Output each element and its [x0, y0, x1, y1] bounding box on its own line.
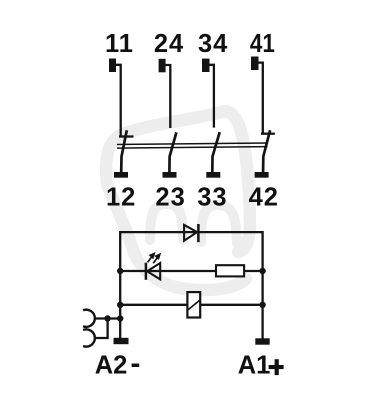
wire coil row — [120, 304, 262, 306]
svg-text:23: 23 — [155, 184, 185, 212]
wire pole4 top — [258, 63, 263, 134]
terminal square 34 — [202, 59, 210, 72]
wire pole3 top — [209, 65, 214, 128]
terminal square 11 — [109, 59, 116, 73]
mechanical linkage line lower — [117, 147, 268, 149]
svg-text:33: 33 — [197, 184, 227, 212]
resistor R1 — [216, 265, 244, 276]
terminal bar 33 — [206, 172, 220, 178]
svg-text:12: 12 — [106, 184, 136, 212]
terminal square 41 — [251, 57, 259, 71]
terminal square 24 — [159, 59, 166, 73]
terminal bar 42 — [255, 172, 269, 178]
NC tick pole4 — [261, 133, 275, 135]
mechanical linkage line upper — [117, 143, 268, 145]
svg-text:41: 41 — [250, 30, 275, 58]
wire right vertical lower — [261, 271, 263, 339]
blade pole4 — [263, 130, 270, 172]
terminal bar A1 — [255, 338, 269, 344]
junction dot resistor row right — [259, 268, 265, 274]
svg-text:A1: A1 — [238, 351, 271, 379]
wire bridge lower row — [94, 319, 107, 339]
blade pole1 — [121, 130, 127, 172]
wire left vertical lower — [119, 271, 121, 339]
diode D1 — [184, 224, 198, 242]
terminal bar 23 — [163, 172, 177, 178]
wire pole2 top — [165, 65, 170, 128]
LED arrows — [148, 254, 160, 264]
LED D2 — [146, 254, 160, 280]
junction dot bridge at left vertical — [117, 315, 123, 321]
wire LED/resistor row — [120, 270, 262, 272]
bridge contact arc upper — [83, 310, 95, 327]
relay coil K1 — [187, 292, 200, 317]
wire bridge upper row — [94, 317, 120, 319]
terminal bar 12 — [114, 172, 128, 178]
blade pole2 — [169, 132, 176, 172]
watermark swoosh arch — [106, 111, 250, 290]
wire pole1 top — [116, 65, 121, 137]
junction dot coil row right — [259, 302, 265, 308]
wire coil-circuit top — [120, 232, 262, 271]
svg-text:34: 34 — [198, 30, 228, 58]
junction dot coil row left — [117, 302, 123, 308]
junction dot LED row left — [117, 268, 123, 274]
svg-text:A2: A2 — [95, 351, 128, 379]
svg-text:24: 24 — [154, 30, 184, 58]
junction dot bridge mid — [104, 315, 110, 321]
svg-text:42: 42 — [249, 184, 279, 212]
terminal bar A2 — [114, 338, 129, 344]
NC tick pole1 — [119, 135, 134, 137]
blade pole3 — [212, 132, 219, 173]
bridge contact arc lower — [83, 329, 95, 346]
svg-text:11: 11 — [105, 30, 134, 58]
